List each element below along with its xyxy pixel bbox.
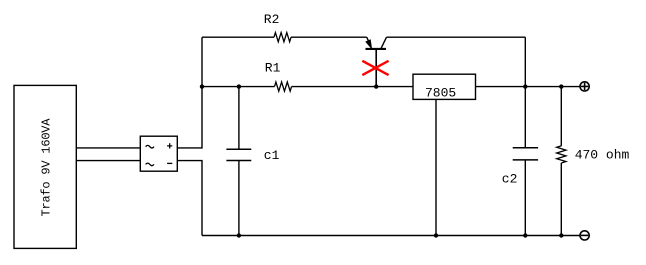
svg-text:Trafo 9V 160VA: Trafo 9V 160VA — [40, 118, 54, 217]
junction: C1 top / middle rail — [237, 84, 241, 88]
junction: C1 bottom / ground rail — [237, 233, 241, 237]
junction: riser / middle rail — [200, 84, 204, 88]
svg-text:c2: c2 — [502, 172, 518, 187]
junction: regulator ground / ground rail — [434, 233, 438, 237]
junction: R3 top / output rail — [559, 84, 563, 88]
svg-text:R1: R1 — [265, 61, 281, 76]
bridge rectifier - pin symbol — [167, 162, 172, 164]
wire: right riser down to output node — [524, 37, 526, 86]
voltage regulator U1 box — [413, 74, 476, 99]
wire: top rail from riser to R2 — [202, 36, 274, 38]
capacitor C1 — [226, 87, 251, 236]
capacitor C2 — [513, 87, 538, 236]
wire: middle rail, riser to R1 — [202, 86, 275, 88]
transistor Q1 (PNP) — [366, 37, 387, 49]
bridge rectifier AC pin symbol ~ (upper) — [146, 145, 154, 148]
junction: output node / right riser — [523, 84, 527, 88]
bridge rectifier + pin symbol — [167, 143, 172, 148]
resistor R1 — [275, 82, 292, 91]
junction: C2 bottom / ground rail — [523, 233, 527, 237]
wire: regulator ground pin to ground rail — [435, 99, 437, 235]
wire: transformer to bridge, lower — [76, 160, 140, 162]
wire: bridge - output down to ground rail — [177, 161, 202, 236]
bridge rectifier B1 — [140, 136, 177, 171]
wire: transistor collector to right riser — [387, 36, 526, 38]
svg-text:470 ohm: 470 ohm — [575, 148, 630, 163]
wire: transformer to bridge, upper — [76, 147, 140, 149]
svg-text:7805: 7805 — [425, 86, 456, 101]
wire: transistor base down to middle rail — [375, 49, 377, 87]
wire: R2 to transistor emitter — [291, 36, 367, 38]
transformer T1 — [14, 85, 76, 248]
svg-text:c1: c1 — [264, 148, 280, 163]
junction: R3 bottom / ground rail — [559, 233, 563, 237]
junction: base wire / middle rail — [374, 84, 378, 88]
wire: ground rail (bottom) — [202, 235, 580, 237]
bridge rectifier AC pin symbol ~ (lower) — [146, 163, 154, 166]
wire: R1 to regulator input — [292, 86, 414, 88]
wire: regulator output to + terminal — [476, 86, 581, 88]
output terminal + (circle with plus) — [580, 82, 589, 91]
wire: bridge + output to vertical riser — [177, 37, 202, 148]
red X deletion mark over base wire — [362, 61, 388, 75]
resistor R2 — [274, 33, 291, 42]
output terminal - (circle with minus) — [580, 231, 589, 240]
svg-text:R2: R2 — [264, 12, 280, 27]
resistor R3 470 ohm (vertical) — [557, 87, 566, 236]
